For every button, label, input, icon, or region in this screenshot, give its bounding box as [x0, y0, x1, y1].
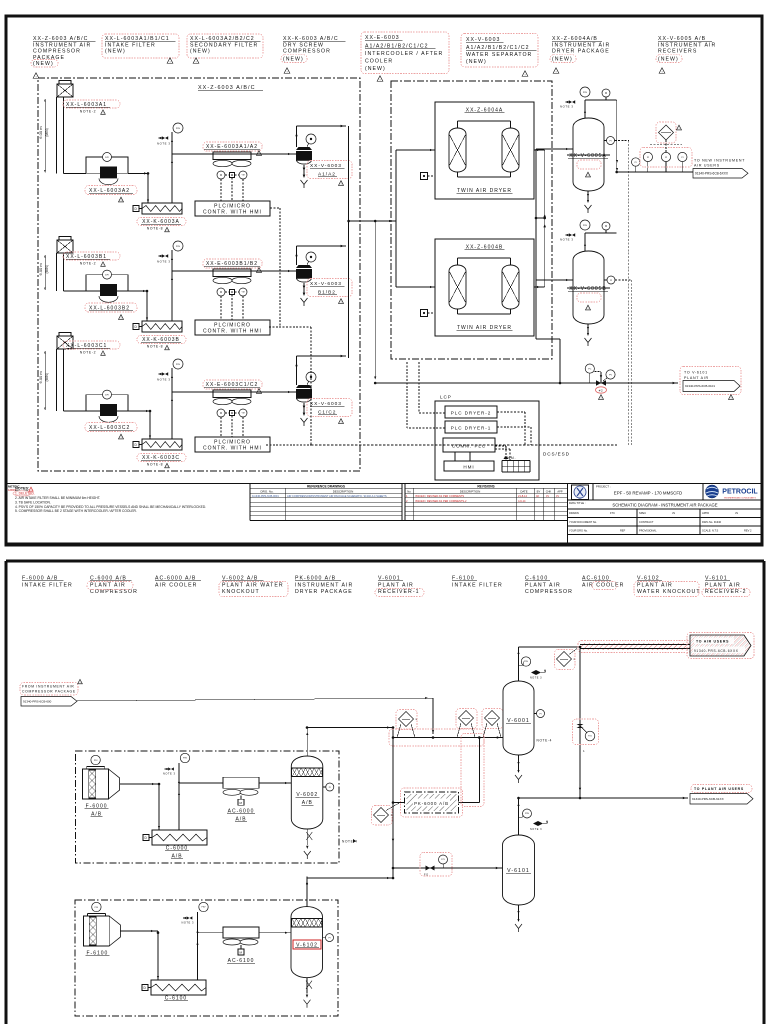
relief valve PSV C-6000: [163, 753, 190, 830]
wire feed to receiver A: [536, 148, 573, 150]
svg-text:NOTE 3: NOTE 3: [560, 238, 573, 242]
compressor C-6100: [142, 980, 206, 995]
svg-text:INTAKE FILTER: INTAKE FILTER: [452, 582, 503, 588]
svg-text:(NEW): (NEW): [466, 59, 487, 65]
svg-text:PLANT AIR: PLANT AIR: [705, 582, 741, 588]
svg-text:ENGINEERS AND CONSULTANTS: ENGINEERS AND CONSULTANTS: [724, 496, 756, 499]
svg-text:(NEW): (NEW): [658, 57, 679, 63]
svg-text:YM: YM: [242, 175, 245, 177]
svg-text:6.00 m: 6.00 m: [38, 263, 43, 276]
svg-text:PSV: PSV: [583, 225, 588, 227]
page 1 bottom thick border: [6, 543, 762, 546]
svg-text:JS: JS: [546, 495, 549, 498]
pressure diamond at users header: [555, 649, 578, 670]
svg-text:PI: PI: [647, 157, 649, 159]
svg-text:DRYER PACKAGE: DRYER PACKAGE: [295, 589, 353, 595]
wire filter to compressor train C: [128, 410, 151, 439]
wire dryer signal dashed risers: [407, 362, 419, 428]
svg-text:AIR COOLER: AIR COOLER: [155, 582, 197, 588]
svg-text:21-8-14: 21-8-14: [518, 494, 527, 498]
flow element diamond at PK-6000: [372, 803, 401, 826]
svg-text:M: M: [605, 225, 607, 228]
svg-text:WATER SEPARATOR: WATER SEPARATOR: [466, 52, 532, 58]
equipment label XX-V-6003 water separator: [461, 34, 538, 77]
label XX-K-6003C: [137, 454, 186, 469]
wire main dry air header: [375, 382, 678, 385]
wire V-6102 overhead: [306, 877, 308, 907]
intake filter stack train A (XX-L-6003A1): [57, 81, 74, 174]
relief valve PSV C-6100: [182, 902, 209, 980]
svg-text:D: D: [135, 325, 138, 329]
instrument air dryer package PK-6000 A/B: [393, 734, 484, 818]
svg-text:NOTE-2: NOTE-2: [80, 351, 97, 355]
label XX-L-6003C2: [85, 423, 137, 440]
svg-text:NOTE 3: NOTE 3: [163, 772, 176, 776]
svg-text:DWG No. 91340: DWG No. 91340: [702, 520, 722, 524]
wire instrument air users manifold: [617, 158, 693, 172]
svg-text:DESCRIPTION: DESCRIPTION: [333, 489, 354, 493]
wire separator outlet train B to trunk: [295, 245, 346, 265]
box PLC DRYER-2: [445, 406, 497, 418]
wire receiver B outlet stub: [585, 232, 610, 234]
label XX-K-6003A: [137, 218, 186, 233]
svg-text:SCHEMATIC DIAGRAM - INSTRUMENT: SCHEMATIC DIAGRAM - INSTRUMENT AIR PACKA…: [612, 503, 717, 508]
wire filter to compressor train B: [128, 290, 148, 321]
equipment label V-6101: [702, 576, 750, 597]
wire PLC-C signal dashed: [266, 444, 311, 446]
svg-text:M: M: [220, 174, 222, 177]
svg-text:APPD: APPD: [702, 511, 709, 515]
wire users header downcomer: [579, 649, 581, 799]
svg-text:D: D: [135, 207, 138, 211]
wire DCS/ESD dashed bus: [311, 444, 617, 446]
svg-text:M: M: [239, 801, 242, 805]
wire filter to compressor train A: [128, 172, 149, 203]
svg-text:SPEC: SPEC: [639, 511, 646, 515]
svg-text:NOTE 3: NOTE 3: [560, 105, 573, 109]
svg-text:COMPRESSOR: COMPRESSOR: [283, 49, 331, 55]
svg-text:BY: BY: [537, 489, 541, 493]
svg-text:CONTR. WITH HMI: CONTR. WITH HMI: [203, 329, 262, 335]
instrument square dryer B: [421, 310, 436, 317]
svg-text:PLC DRYER-2: PLC DRYER-2: [451, 411, 491, 416]
svg-text:PLANT AIR WATER: PLANT AIR WATER: [222, 582, 284, 588]
wire to plant air users header: [519, 797, 689, 799]
svg-text:D: D: [135, 443, 138, 447]
svg-text:PSV: PSV: [524, 661, 529, 663]
knockout vessel V-6002: [291, 756, 334, 859]
wire receiver A outlet downcomer: [616, 100, 618, 172]
equipment label F-6000 A/B: [22, 576, 73, 589]
svg-text:PSV: PSV: [176, 128, 181, 130]
water separator XX-V-6003 C1/C2 train C: [296, 372, 316, 426]
svg-text:PSV: PSV: [183, 758, 188, 760]
label XX-E-6003C1/C2: [203, 380, 262, 394]
svg-text:COMM. PLC: COMM. PLC: [452, 444, 486, 449]
label XX-L-6003B2: [85, 303, 137, 320]
package boundary F-6100 train (dash-dot box): [75, 900, 338, 1016]
svg-text:3. TB SAFE LOCATION.: 3. TB SAFE LOCATION.: [15, 500, 51, 504]
equipment label C-6000 A/B: [87, 576, 138, 595]
wire compressor to separator train B: [172, 270, 296, 272]
equipment label V-6001: [375, 576, 424, 597]
svg-text:NOTE 3: NOTE 3: [530, 677, 542, 680]
equipment label F-6100: [452, 576, 503, 589]
compressor XX-K-6003A (dry screw): [133, 203, 182, 214]
svg-text:CONTR. WITH HMI: CONTR. WITH HMI: [203, 210, 262, 216]
flow transmitter diamond FT-2 on V-6001 inlet: [456, 709, 477, 738]
wire trunk header (collects trains A/B/C): [348, 126, 350, 358]
equipment label XX-L-6003A2/B2/C2 secondary filter: [187, 34, 263, 64]
equipment label AC-6000 A/B: [155, 576, 201, 589]
air cooler AC-6100: [223, 927, 259, 955]
wire V-6002 overhead: [306, 728, 308, 757]
svg-text:D: D: [144, 986, 147, 990]
wire V-6002 overhead to trunk: [307, 726, 393, 728]
svg-text:M: M: [220, 291, 222, 294]
box PLC DRYER-1: [445, 421, 497, 433]
wire inlet to dryer B: [396, 286, 435, 288]
wire hatched line to air users: [578, 641, 691, 653]
svg-text:1: 1: [391, 813, 393, 817]
svg-text:PDI: PDI: [94, 760, 98, 762]
note NOTE-4 train 1: [342, 839, 358, 844]
label XX-V-6003 B1/B2: [307, 279, 352, 305]
svg-text:SCALE: N.T.S: SCALE: N.T.S: [702, 528, 719, 532]
svg-text:JS: JS: [556, 495, 559, 498]
flag to plant air users: [690, 785, 753, 805]
compressor XX-K-6003C (dry screw): [133, 439, 182, 450]
wire filter to compressor C-6100: [120, 930, 159, 980]
dimension 6.00 m (MIN) train B: [38, 255, 49, 290]
svg-text:AIR USERS: AIR USERS: [694, 164, 720, 168]
intercooler XX-E-6003A1/A2: [213, 152, 251, 201]
svg-text:TO NEW INSTRUMENT: TO NEW INSTRUMENT: [694, 159, 745, 163]
svg-text:6.00 m: 6.00 m: [38, 126, 43, 139]
twin air dryer XX-Z-6004B: [435, 239, 534, 336]
svg-text:YM: YM: [242, 292, 245, 294]
svg-text:INTAKE FILTER: INTAKE FILTER: [105, 42, 156, 48]
svg-text:ISSUED / REVISED AS PER COMMEN: ISSUED / REVISED AS PER COMMENTS: [415, 494, 464, 498]
wire compressor to knockout V-6002: [179, 782, 291, 784]
wire compressor to knockout V-6102: [198, 932, 292, 934]
relief valve PSV train C with vent: [157, 359, 183, 439]
flag to V-6101 plant air: [680, 367, 741, 401]
svg-text:NOTE-8: NOTE-8: [147, 345, 164, 349]
svg-text:NOTE-8: NOTE-8: [147, 463, 164, 467]
svg-text:JS: JS: [672, 511, 675, 515]
intake filter F-6000: [83, 755, 120, 799]
svg-text:PACKAGE: PACKAGE: [33, 55, 65, 61]
junction dots page 2: [157, 646, 582, 934]
svg-text:RECEIVERS: RECEIVERS: [658, 49, 697, 55]
svg-text:(MIN): (MIN): [45, 128, 49, 136]
svg-text:M: M: [239, 951, 242, 955]
label XX-L-6003A1: [63, 100, 120, 115]
relief valve PSV train B with vent: [157, 241, 183, 321]
svg-text:HMI: HMI: [463, 465, 474, 470]
svg-text:NOTE 3: NOTE 3: [530, 828, 542, 831]
svg-text:DPI: DPI: [105, 394, 109, 396]
instrument signal dashed line B: [615, 280, 632, 445]
stamp METRIC at title block left: [8, 485, 20, 492]
svg-text:1: 1: [583, 749, 585, 753]
wire PLC-A signal dashed: [270, 208, 280, 327]
secondary filter XX-L-6003B2: [86, 270, 128, 302]
svg-text:YOUR DRG No.: YOUR DRG No.: [569, 528, 588, 532]
flag to new instrument air users: [693, 159, 748, 179]
svg-text:DCS/ESD: DCS/ESD: [543, 452, 570, 457]
svg-text:M: M: [220, 412, 222, 415]
label AC-6100: [227, 958, 255, 964]
equipment label XX-Z-6004A/B instrument air dryer package: [550, 36, 610, 74]
svg-text:TO AIR USERS: TO AIR USERS: [696, 640, 729, 644]
svg-text:CHK: CHK: [546, 489, 552, 493]
svg-text:(NEW): (NEW): [105, 49, 126, 55]
svg-text:INSTRUMENT AIR: INSTRUMENT AIR: [33, 42, 91, 48]
equipment label XX-L-6003A1/B1/C1 intake filter: [102, 34, 179, 64]
svg-text:91340-PRS-6CB-600: 91340-PRS-6CB-600: [23, 699, 52, 703]
svg-text:(NEW): (NEW): [552, 57, 573, 63]
panel LCP outline: [435, 395, 539, 481]
flow transmitter diamond FT-3 on V-6001 inlet: [482, 709, 503, 738]
svg-text:ISSUED / REVISED AS PER COMMEN: ISSUED / REVISED AS PER COMMENTS-2: [415, 499, 467, 503]
svg-text:RECEIVER-2: RECEIVER-2: [705, 589, 747, 595]
svg-text:PDI: PDI: [95, 907, 99, 909]
svg-text:CONTRACT: CONTRACT: [639, 520, 654, 524]
instrument signal dashed line A: [615, 141, 629, 446]
svg-text:PLC/MICRO: PLC/MICRO: [214, 322, 251, 328]
controller PLC/MICRO with HMI train A: [195, 201, 270, 216]
wire stack outlet train C: [64, 410, 87, 412]
plant air receiver V-6101: [503, 798, 548, 932]
svg-text:RECEIVER-1: RECEIVER-1: [378, 589, 420, 595]
svg-text:PSV: PSV: [525, 813, 530, 815]
dimension 6.00 m (MIN) train A: [38, 99, 49, 172]
wire dryer bypass line: [374, 221, 376, 380]
label XX-K-6003B: [137, 336, 186, 351]
equipment label V-6002 A/B: [219, 576, 288, 597]
wire trunk to V-6101 with orifice and PCV: [393, 853, 503, 877]
svg-text:DATE: DATE: [520, 489, 527, 493]
svg-text:PROJECT :: PROJECT :: [596, 485, 611, 489]
svg-text:2: 2: [416, 717, 418, 721]
svg-text:REVISIONS: REVISIONS: [477, 484, 494, 488]
wire separator outlet train C to trunk: [295, 355, 346, 385]
svg-text:AIR COOLER: AIR COOLER: [582, 582, 624, 588]
svg-text:#2: #2: [599, 388, 604, 392]
twin air dryer XX-Z-6004A: [435, 102, 534, 199]
label XX-E-6003B1/B2: [203, 259, 262, 273]
title block right section with PETROCIL logo: [568, 484, 763, 535]
label C-6000: [165, 846, 189, 860]
svg-text:NOTE-2: NOTE-2: [80, 262, 97, 266]
label XX-L-6003C1: [63, 341, 120, 356]
svg-text:JS: JS: [735, 511, 738, 515]
svg-text:PK-6000 A/B: PK-6000 A/B: [414, 801, 449, 806]
page 2 border frame: [6, 561, 764, 1024]
svg-text:4. PSV'S OF 150% CAPACITY BE P: 4. PSV'S OF 150% CAPACITY BE PROVIDED TO…: [15, 505, 206, 509]
svg-text:NOTE-4: NOTE-4: [537, 739, 553, 743]
svg-text:INTERCOOLER / AFTER: INTERCOOLER / AFTER: [365, 51, 443, 57]
svg-text:YM: YM: [242, 413, 245, 415]
flag to air users (hatched): [687, 633, 754, 659]
equipment label AC-6100: [582, 576, 624, 590]
svg-text:TO PLANT AIR USERS: TO PLANT AIR USERS: [694, 787, 744, 791]
wire dryer A outlet: [534, 149, 545, 151]
wire trunk to dryer package: [349, 220, 396, 222]
wire PLC-B signal dashed: [269, 327, 311, 445]
svg-text:PLANT AIR: PLANT AIR: [378, 582, 414, 588]
svg-text:DRAWN: DRAWN: [569, 511, 579, 515]
svg-text:(NEW): (NEW): [33, 61, 54, 67]
label XX-V-6003 A1/A2: [307, 161, 352, 187]
svg-text:LCP: LCP: [440, 395, 452, 400]
svg-text:6.00 m: 6.00 m: [38, 371, 43, 384]
svg-text:PSV: PSV: [176, 246, 181, 248]
svg-text:PSV: PSV: [201, 907, 206, 909]
label C-6100: [164, 996, 188, 1002]
svg-text:2: 2: [574, 657, 576, 661]
svg-text:(NEW): (NEW): [190, 49, 211, 55]
wire inlet to dryer A: [396, 149, 435, 151]
label F-6100: [85, 951, 109, 957]
equipment label XX-V-6005 A/B instrument air receivers: [656, 36, 716, 74]
svg-text:COMPRESSOR: COMPRESSOR: [33, 49, 81, 55]
svg-text:2. AIR INTAKE FILTER SHALL BE: 2. AIR INTAKE FILTER SHALL BE MINIMUM 6m…: [15, 496, 100, 500]
flag from instrument air compressor package: [20, 679, 82, 706]
svg-text:INSTRUMENT AIR: INSTRUMENT AIR: [295, 582, 353, 588]
wire compressor to separator train C: [172, 391, 296, 393]
svg-text:NOTE 3: NOTE 3: [157, 142, 170, 146]
wire receiver feed header: [535, 149, 537, 339]
equipment label V-6102: [634, 576, 701, 597]
svg-text:KNOCKOUT: KNOCKOUT: [222, 589, 260, 595]
equipment label XX-E-6003 intercooler / after cooler: [361, 32, 449, 82]
svg-text:1. DELETED.: 1. DELETED.: [15, 492, 35, 496]
svg-text:FROM INSTRUMENT AIR: FROM INSTRUMENT AIR: [22, 685, 74, 689]
svg-text:PROVISIONAL: PROVISIONAL: [639, 528, 657, 532]
relief valve PSV train A with vent: [157, 123, 183, 203]
intercooler XX-E-6003C1/C2: [213, 390, 251, 437]
svg-text:INTAKE FILTER: INTAKE FILTER: [22, 582, 73, 588]
box COMM. PLC: [443, 438, 495, 452]
water separator XX-V-6003 B1/B2 train B: [296, 252, 316, 306]
compressor C-6000: [143, 830, 207, 845]
svg-text:AIR COMPRESSOR/INSTRUMENT AIR: AIR COMPRESSOR/INSTRUMENT AIR PACKAGE SC…: [287, 494, 387, 498]
equipment label XX-Z-6003 A/B/C instrument air compressor package: [31, 36, 95, 79]
air cooler AC-6000: [223, 777, 259, 805]
svg-text:NOTE-8: NOTE-8: [147, 227, 164, 231]
svg-text:DRG. No.: DRG. No.: [260, 489, 273, 493]
svg-text:COOLER: COOLER: [365, 58, 393, 64]
equipment label C-6100: [525, 576, 573, 595]
page 1 border frame: [6, 16, 762, 545]
water separator XX-V-6003 A1/A2 train A: [296, 134, 316, 188]
control valve PV on main header: [585, 364, 615, 400]
svg-text:DPI: DPI: [105, 274, 109, 276]
svg-text:INSTRUMENT AIR: INSTRUMENT AIR: [552, 42, 610, 48]
wire cross-tie from instrument air package: [77, 697, 434, 734]
svg-text:COMPRESSOR: COMPRESSOR: [525, 589, 573, 595]
knockout vessel V-6102: [291, 907, 334, 1008]
controller PLC/MICRO with HMI train C: [195, 437, 270, 452]
wire stack outlet train A: [64, 172, 87, 174]
label XX-E-6003A1/A2: [203, 142, 262, 156]
flow transmitter diamond FT-1 on V-6001 inlet: [396, 710, 418, 738]
title block tables: [6, 484, 762, 544]
svg-text:91340-PRS-6CB-6XXX: 91340-PRS-6CB-6XXX: [694, 649, 739, 653]
svg-text:D: D: [145, 836, 148, 840]
svg-text:DWG TITLE :: DWG TITLE :: [569, 501, 586, 505]
wire plant air trunk: [392, 728, 394, 879]
label XX-L-6003A2: [85, 186, 137, 203]
pressure gauge PI receiver B: [604, 276, 615, 284]
wire stack outlet train B: [64, 290, 87, 292]
svg-text:REV 2: REV 2: [744, 528, 752, 532]
svg-text:NOTE-2: NOTE-2: [80, 110, 97, 114]
wire V-6001 overhead header: [519, 646, 581, 648]
label F-6000: [85, 804, 109, 818]
svg-text:PLANT AIR: PLANT AIR: [525, 582, 561, 588]
svg-text:FTC: FTC: [610, 511, 615, 515]
svg-text:APP: APP: [557, 489, 562, 493]
intake filter stack train C (XX-L-6003C1): [57, 333, 74, 412]
svg-text:PLANT AIR: PLANT AIR: [90, 582, 126, 588]
intake filter F-6100: [83, 902, 120, 946]
svg-text:PSV: PSV: [176, 364, 181, 366]
wire LCP internal signals: [407, 412, 531, 461]
dimension 6.00 m (MIN) train C: [38, 351, 49, 410]
svg-text:NOTE 3: NOTE 3: [182, 921, 195, 925]
intake filter stack train B (XX-L-6003B1): [57, 237, 74, 292]
svg-text:PI: PI: [681, 157, 683, 159]
notes block: [13, 487, 206, 514]
check valves on dryer outlet header: [536, 214, 546, 227]
plant air receiver V-6001: [503, 647, 552, 783]
svg-text:COMPRESSOR PACKAGE: COMPRESSOR PACKAGE: [22, 690, 76, 694]
svg-text:M: M: [605, 92, 607, 95]
label XX-L-6003B1: [63, 252, 120, 267]
intercooler XX-E-6003B1/B2: [213, 269, 251, 320]
svg-text:4-9-14: 4-9-14: [518, 499, 526, 503]
svg-text:91340-PRS-6CB-61XX: 91340-PRS-6CB-61XX: [692, 797, 724, 801]
package boundary XX-Z-6004A/B dryer package (dash-dot box): [391, 81, 552, 359]
compressor XX-K-6003B (dry screw): [133, 321, 182, 332]
svg-text:PETROCIL: PETROCIL: [722, 489, 758, 496]
svg-text:REF: REF: [620, 528, 626, 532]
instrument square dryer A: [421, 173, 436, 180]
wire filter to compressor C-6000: [120, 783, 161, 830]
svg-text:DRYER PACKAGE: DRYER PACKAGE: [552, 49, 610, 55]
svg-text:(NEW): (NEW): [365, 66, 386, 72]
wire V-6102 overhead to trunk: [306, 877, 393, 885]
wire compressor to separator train A: [172, 153, 296, 155]
svg-text:(NEW): (NEW): [283, 57, 304, 63]
svg-text:PLC/MICRO: PLC/MICRO: [214, 439, 251, 445]
secondary filter XX-L-6003C2: [86, 390, 128, 422]
svg-text:NOTE 3: NOTE 3: [157, 260, 170, 264]
svg-text:5. COMPRESSOR SHALL BE 2 STAGE: 5. COMPRESSOR SHALL BE 2 STAGE WITH INTE…: [15, 509, 137, 513]
svg-text:PLANT AIR: PLANT AIR: [684, 376, 709, 380]
junction dots page 1: [146, 171, 618, 413]
svg-text:NOTES:: NOTES:: [15, 487, 29, 491]
svg-text:DESCRIPTION: DESCRIPTION: [460, 489, 481, 493]
svg-text:INSTRUMENT AIR: INSTRUMENT AIR: [658, 42, 716, 48]
self-regulating valve PCV on downcomer: [573, 719, 599, 753]
pressure gauge PI receiver A: [604, 137, 615, 145]
svg-text:PLC/MICRO: PLC/MICRO: [214, 203, 251, 209]
